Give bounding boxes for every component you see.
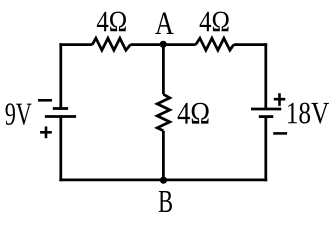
label 4ohm R2 bbox=[200, 12, 229, 32]
label 9V battery V1 bbox=[6, 103, 32, 125]
wire top-left segment bbox=[59, 43, 92, 46]
battery V1 minus sign bbox=[38, 99, 52, 102]
label 4ohm R1 bbox=[97, 12, 126, 32]
battery V2 long positive plate bbox=[251, 108, 281, 111]
label node A bbox=[155, 13, 173, 34]
wire right rail lower bbox=[264, 117, 267, 182]
battery V2 short negative plate bbox=[259, 115, 274, 118]
battery V1 short negative plate bbox=[53, 107, 68, 110]
battery V1 plus sign bbox=[40, 127, 52, 139]
resistor R1 4ohm top-left zigzag bbox=[92, 38, 130, 50]
battery V1 long positive plate bbox=[45, 115, 76, 118]
label node B bbox=[159, 191, 172, 212]
node A junction dot bbox=[160, 41, 167, 48]
battery V2 plus sign bbox=[274, 93, 286, 106]
resistor R2 4ohm top-right zigzag bbox=[196, 38, 234, 50]
wire left rail upper bbox=[59, 43, 62, 108]
wire middle branch upper bbox=[162, 45, 165, 95]
label 18V battery V2 bbox=[288, 103, 329, 124]
wire bottom rail bbox=[59, 179, 267, 182]
wire middle branch lower bbox=[162, 131, 165, 180]
battery V2 minus sign bbox=[273, 132, 287, 135]
wire left rail lower bbox=[59, 117, 62, 182]
wire right rail upper bbox=[264, 43, 267, 109]
wire top-right segment bbox=[234, 43, 268, 46]
resistor R3 4ohm middle vertical zigzag bbox=[157, 94, 170, 131]
wire top-middle segment bbox=[130, 43, 195, 46]
node B junction dot bbox=[160, 177, 167, 184]
label 4ohm R3 bbox=[178, 103, 209, 124]
